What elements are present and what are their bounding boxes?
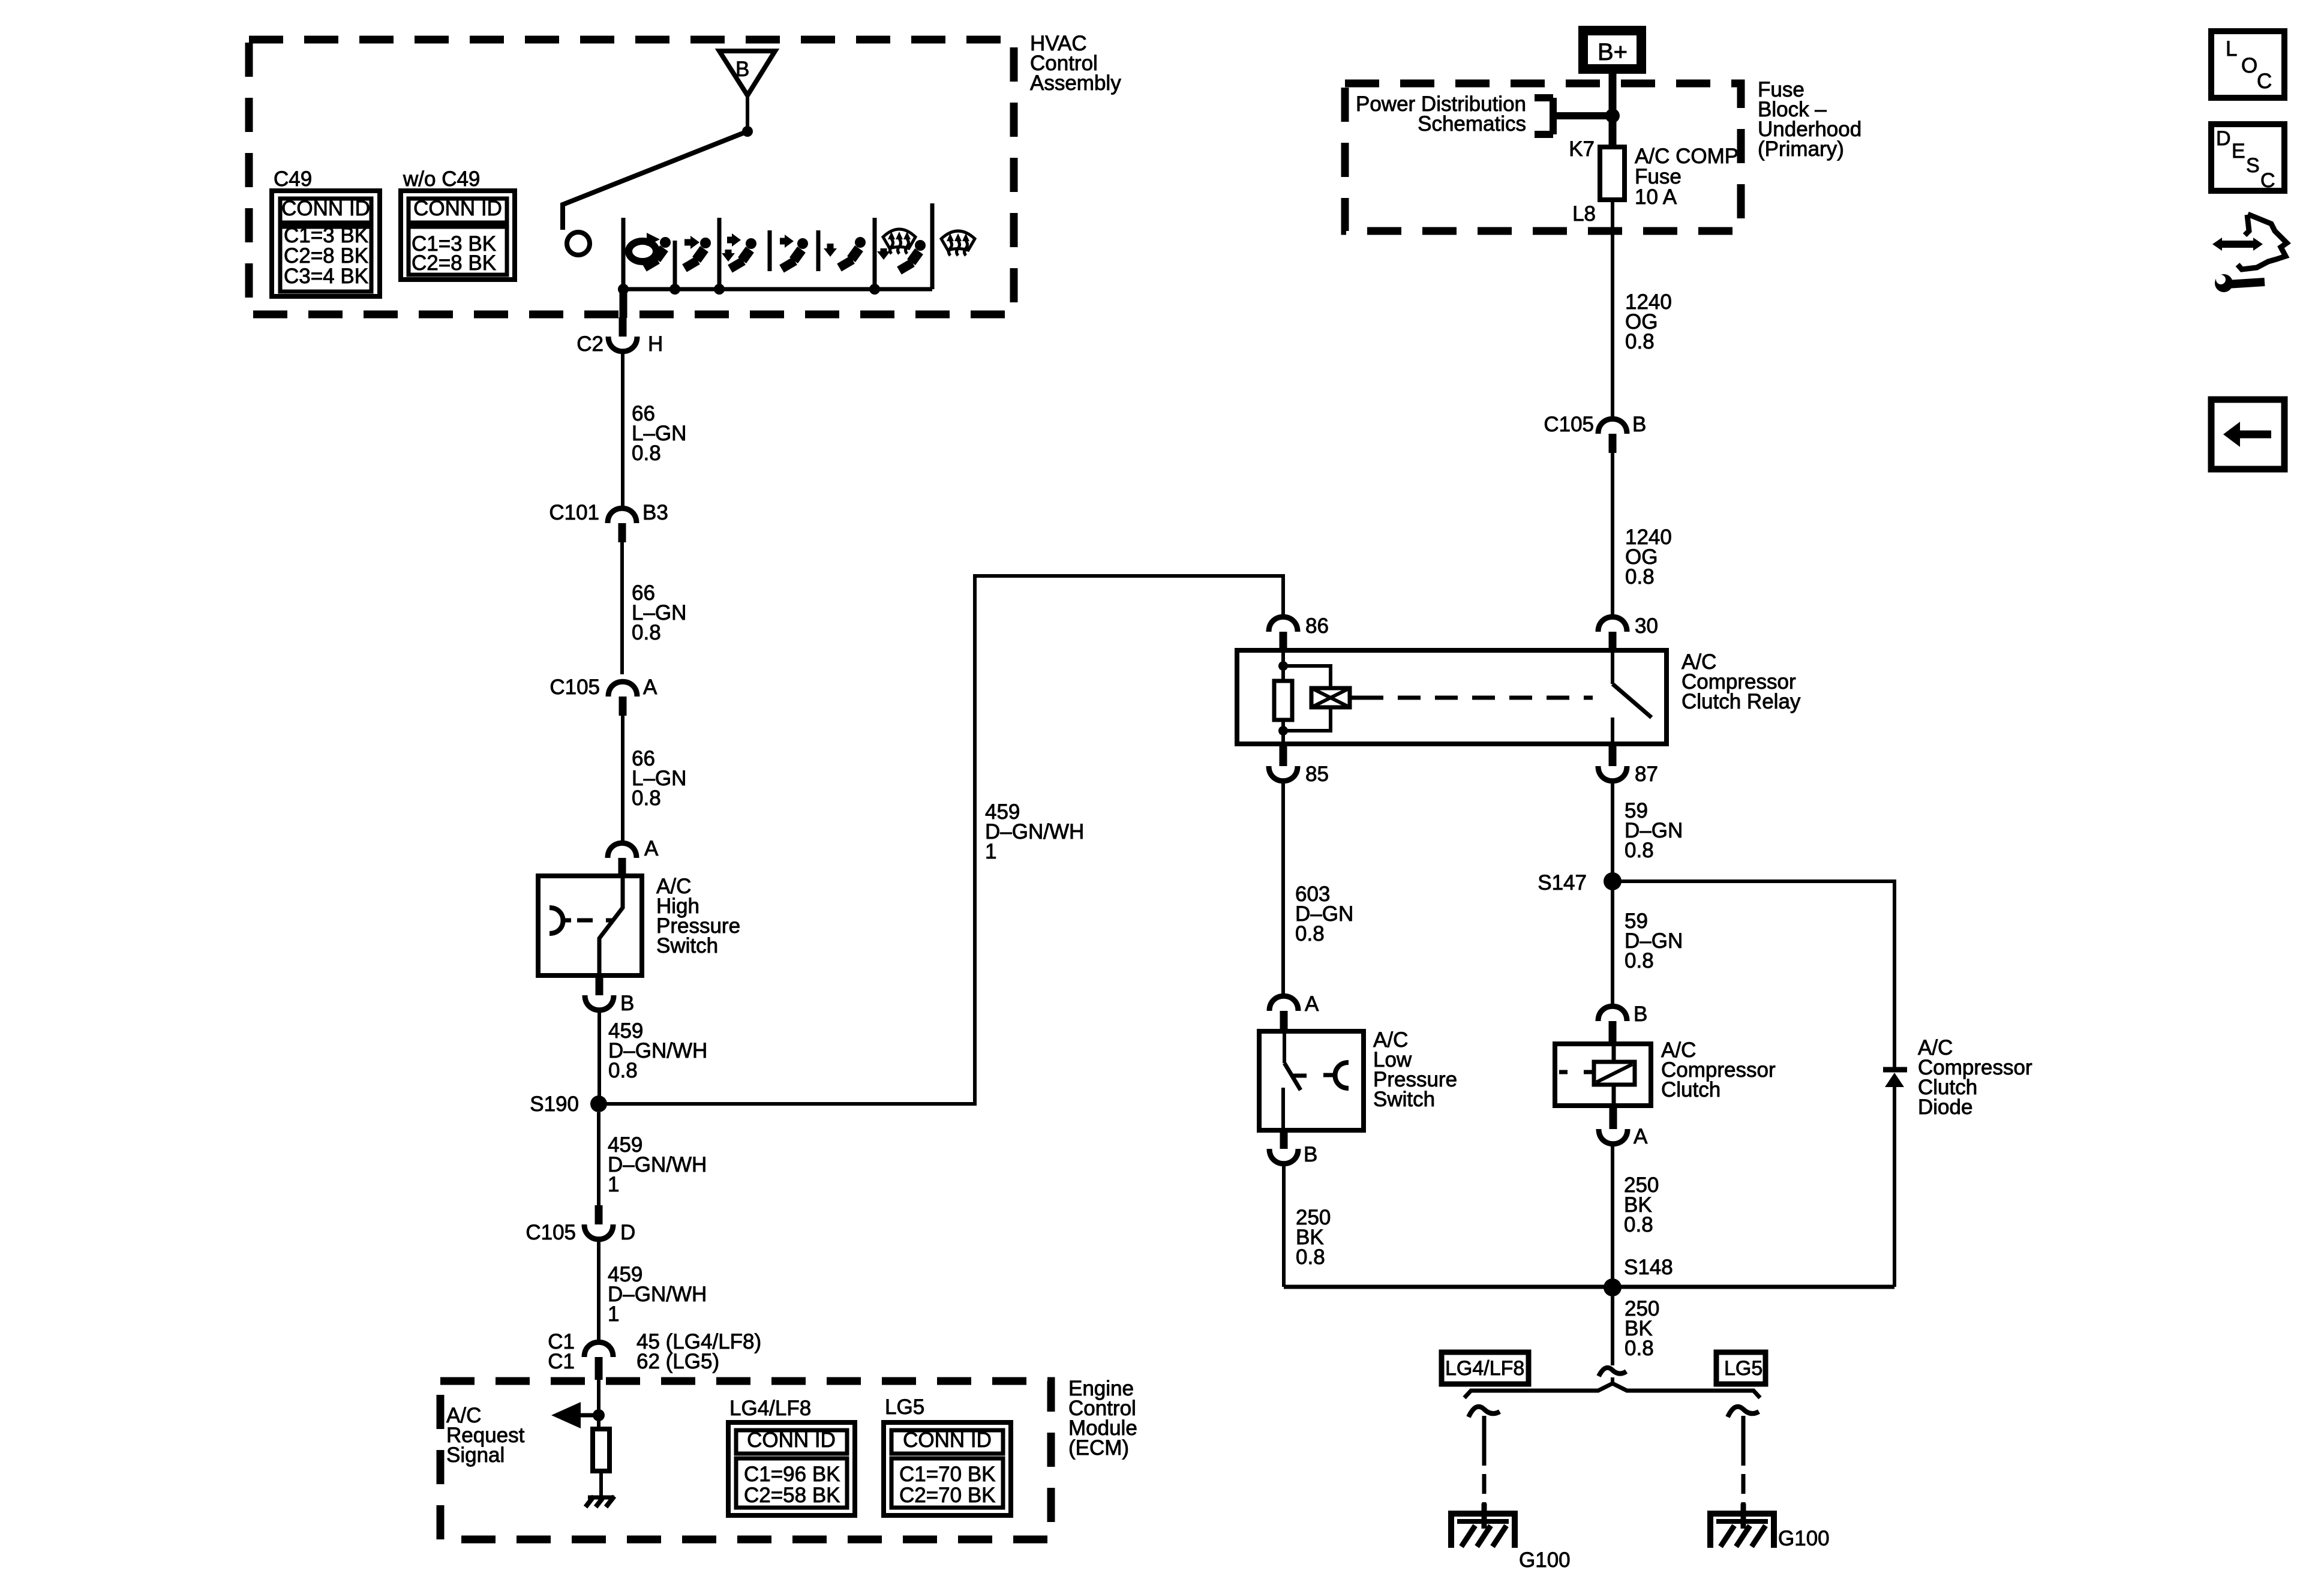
connector relay pin 86 (1269, 614, 1329, 650)
svg-text:C1: C1 (548, 1350, 575, 1373)
node wiper pivot (742, 126, 753, 137)
svg-text:0.8: 0.8 (608, 1059, 638, 1082)
mode icon bi-level (722, 233, 756, 269)
svg-text:LG5: LG5 (1724, 1357, 1762, 1380)
wire label 66 L-GN 0.8 (2) (632, 581, 686, 644)
relay actuator box (1311, 688, 1350, 707)
connector B of compressor clutch (1598, 1002, 1647, 1043)
connector B of high pressure switch (585, 977, 634, 1015)
svg-text:D–GN/WH: D–GN/WH (608, 1283, 707, 1306)
svg-text:0.8: 0.8 (632, 442, 661, 465)
ground G100 right (1710, 1503, 1774, 1548)
svg-text:Schematics: Schematics (1418, 112, 1526, 136)
svg-text:C2=70 BK: C2=70 BK (899, 1484, 996, 1507)
relay coil (1274, 681, 1292, 720)
A/C Compressor Clutch Diode label (1918, 1036, 2032, 1119)
svg-text:1: 1 (608, 1173, 619, 1196)
wire B to S190 (597, 1010, 601, 1097)
svg-text:0.8: 0.8 (1624, 1213, 1653, 1236)
svg-text:Switch: Switch (656, 934, 718, 957)
junction dot bus-4 (869, 284, 880, 295)
svg-text:O: O (2241, 54, 2257, 77)
wire clutch A to S148 (1611, 1143, 1614, 1287)
rotary switch contact circle (567, 232, 590, 255)
power distribution bracket (1535, 98, 1613, 134)
Fuse Block label (1758, 78, 1861, 161)
splice S147 (1538, 871, 1622, 894)
A/C High Pressure Switch label (656, 875, 740, 957)
relay mechanical dashed link (1350, 696, 1593, 700)
connector C105 pin D (526, 1205, 635, 1244)
svg-text:CONN ID: CONN ID (747, 1428, 836, 1452)
svg-text:C1=70 BK: C1=70 BK (899, 1463, 996, 1486)
wire 87 to S147 (1611, 781, 1614, 873)
splice crossover symbol (1599, 1368, 1626, 1376)
A/C Compressor Clutch Relay box (1237, 650, 1667, 744)
splice S148 (1604, 1256, 1673, 1296)
HVAC power node B triangle (719, 51, 775, 95)
HVAC Control Assembly box (dashed) (249, 40, 1014, 314)
relay coil out wire (1281, 720, 1285, 744)
LG5 branch wire (1742, 1416, 1746, 1509)
svg-text:C101: C101 (549, 501, 599, 524)
A/C Compressor Clutch label (1661, 1038, 1776, 1101)
svg-text:S190: S190 (530, 1092, 579, 1116)
node request junction (593, 1409, 605, 1421)
wire diode to rail (1893, 1087, 1896, 1287)
svg-text:C105: C105 (550, 676, 600, 699)
svg-text:D–GN/WH: D–GN/WH (985, 820, 1084, 843)
mode icon vent (684, 236, 711, 268)
mode icon vent 2 (780, 235, 808, 269)
svg-text:B3: B3 (642, 501, 668, 524)
svg-text:C2=58 BK: C2=58 BK (744, 1484, 840, 1507)
wire C2 to C101 (621, 351, 624, 509)
wire label 250 BK 0.8 (left) (1296, 1206, 1331, 1269)
wire C105A to switch A (621, 716, 624, 843)
svg-text:10 A: 10 A (1635, 185, 1677, 209)
svg-text:LG5: LG5 (885, 1395, 924, 1419)
svg-text:0.8: 0.8 (1625, 565, 1655, 589)
LG4 branch wire (1482, 1416, 1487, 1509)
relay switch contact (1611, 718, 1614, 744)
low pressure switch blade (1284, 1031, 1307, 1090)
svg-text:S148: S148 (1624, 1256, 1673, 1279)
back arrow icon box (2211, 400, 2284, 469)
wire S148 down (1611, 1296, 1614, 1365)
wire label 459 D-GN/WH 0.8 (608, 1019, 707, 1082)
svg-text:S: S (2246, 154, 2260, 177)
svg-text:B: B (735, 58, 749, 81)
svg-text:CONN ID: CONN ID (413, 197, 502, 220)
svg-text:0.8: 0.8 (1296, 1245, 1325, 1269)
relay actuator bracket (1283, 666, 1331, 731)
connector relay pin 85 (1269, 743, 1329, 786)
svg-text:62 (LG5): 62 (LG5) (636, 1350, 719, 1373)
wire label 250 BK 0.8 (mid) (1624, 1173, 1659, 1236)
svg-text:L8: L8 (1572, 202, 1596, 226)
connector C101 pin B3 (549, 501, 668, 542)
svg-text:L: L (2226, 37, 2237, 61)
w/o C49 connector table (401, 191, 515, 280)
LG4/LF8 CONN ID table (728, 1422, 855, 1515)
ground rail wire (1284, 1285, 1894, 1289)
wire label 66 L-GN 0.8 (1) (632, 402, 686, 465)
wire label 459 D-GN/WH 1 (1) (608, 1133, 707, 1196)
LG5 CONN ID table (884, 1422, 1011, 1515)
HVAC Control Assembly label (1030, 32, 1121, 95)
svg-text:H: H (648, 332, 663, 356)
wire triangle-to-wiper node (746, 95, 749, 131)
svg-text:G100: G100 (1519, 1548, 1571, 1572)
svg-text:C49: C49 (274, 167, 312, 191)
connector A of low pressure switch (1269, 992, 1319, 1029)
wire B+ to fuse (1609, 74, 1617, 147)
connector B of low pressure switch (1269, 1131, 1317, 1166)
svg-text:B: B (1304, 1143, 1317, 1166)
service icon arrow-wrench (2212, 214, 2287, 292)
svg-text:C105: C105 (526, 1221, 576, 1244)
C49 connector table (272, 191, 380, 296)
svg-text:D–GN/WH: D–GN/WH (608, 1153, 707, 1176)
wire 85 to LP switch (1281, 781, 1285, 996)
svg-text:Switch: Switch (1373, 1088, 1435, 1111)
svg-text:Clutch Relay: Clutch Relay (1682, 690, 1801, 713)
svg-text:86: 86 (1305, 614, 1329, 638)
svg-text:0.8: 0.8 (632, 621, 661, 644)
svg-text:B: B (1632, 413, 1646, 436)
svg-text:87: 87 (1635, 763, 1658, 786)
wire fuse to C105B (1611, 200, 1614, 419)
harness split brace (1464, 1377, 1760, 1398)
relay switch arm (1613, 650, 1652, 718)
wire C105B to relay 30 (1611, 453, 1614, 617)
A/C COMP Fuse label (1635, 145, 1739, 209)
svg-text:0.8: 0.8 (632, 786, 661, 810)
svg-text:C: C (2260, 169, 2275, 192)
DESC icon box (2211, 124, 2284, 192)
svg-text:1: 1 (608, 1302, 619, 1326)
mode separator bar 5 (816, 230, 821, 271)
fuse K7 A/C COMP (1569, 137, 1625, 226)
A/C Compressor Clutch box (1555, 1044, 1651, 1106)
connector C2 pin H (577, 317, 663, 356)
svg-text:A: A (643, 676, 657, 699)
node power distribution tap (1605, 109, 1620, 123)
wire label 59 D-GN 0.8 (2) (1625, 909, 1683, 972)
svg-text:B: B (620, 992, 634, 1015)
w/o C49 connector table title (403, 167, 480, 191)
svg-text:A: A (1305, 992, 1319, 1016)
Engine Control Module box (dashed) (440, 1381, 1051, 1539)
junction dot bus-3 (714, 284, 725, 295)
wire LP switch B to rail (1282, 1163, 1286, 1287)
Engine Control Module label (1068, 1377, 1137, 1460)
LG5 branch crossover (1728, 1407, 1759, 1417)
svg-text:0.8: 0.8 (1625, 330, 1655, 353)
ground G100 left (1451, 1503, 1515, 1548)
connector C1 into ECM (548, 1330, 761, 1380)
svg-text:G100: G100 (1778, 1527, 1830, 1550)
wire S190 to C105D (597, 1112, 600, 1205)
svg-text:LG4/LF8: LG4/LF8 (1445, 1357, 1524, 1380)
splice S190 (530, 1092, 607, 1116)
LG5 table title (885, 1395, 924, 1419)
relay node coil bottom (1278, 726, 1288, 736)
svg-text:A: A (644, 837, 659, 860)
wire label 459 D-GN/WH 1 (branch) (985, 800, 1084, 863)
wire C101 to C105A (620, 542, 624, 674)
mode separator bar 4 (768, 230, 772, 271)
svg-text:B+: B+ (1598, 39, 1628, 65)
mode contact bar 2 (673, 241, 677, 289)
svg-text:(Primary): (Primary) (1758, 137, 1844, 161)
G100 label left (1519, 1548, 1571, 1572)
LG4/LF8 tag box (1442, 1352, 1529, 1384)
svg-text:K7: K7 (1569, 137, 1595, 161)
svg-text:B: B (1634, 1002, 1647, 1026)
connector A of compressor clutch (1599, 1107, 1648, 1148)
wire S190 branch to relay 86 (599, 576, 1283, 1104)
mode contact bar 6 (873, 218, 877, 289)
low pressure switch contact arc (1323, 1062, 1349, 1088)
svg-text:CONN ID: CONN ID (903, 1428, 992, 1452)
svg-text:0.8: 0.8 (1625, 949, 1654, 972)
svg-text:0.8: 0.8 (1625, 839, 1654, 862)
svg-text:Diode: Diode (1918, 1095, 1972, 1119)
mode contact bar 7 (930, 203, 935, 289)
mode selector bus wire (623, 287, 932, 292)
svg-text:30: 30 (1635, 614, 1658, 638)
svg-text:0.8: 0.8 (1625, 1337, 1654, 1360)
wire C1 stub to request node (597, 1380, 600, 1429)
high pressure switch dashed link (577, 918, 613, 923)
wire C105D to C1 (597, 1239, 600, 1343)
low pressure switch lower contact (1281, 1088, 1285, 1130)
connector A of high pressure switch (608, 837, 659, 876)
wire label 250 BK 0.8 (lower) (1625, 1297, 1659, 1360)
svg-text:Assembly: Assembly (1030, 71, 1121, 95)
wire S147 to clutch B (1611, 890, 1614, 1007)
svg-text:D: D (2216, 127, 2231, 150)
mode icon floor (824, 237, 866, 268)
svg-text:1: 1 (985, 840, 996, 863)
svg-text:A: A (1634, 1125, 1648, 1148)
mode icon defrost (941, 231, 975, 256)
A/C Low Pressure Switch label (1373, 1028, 1457, 1111)
wire label 1240 OG 0.8 (1) (1625, 290, 1672, 353)
svg-text:S147: S147 (1538, 871, 1587, 894)
connector relay pin 30 (1598, 614, 1658, 650)
A/C Compressor Clutch Relay label (1682, 650, 1801, 713)
clutch coil (1559, 1044, 1635, 1106)
wire resistor to ground (599, 1471, 603, 1497)
svg-text:(ECM): (ECM) (1068, 1436, 1129, 1460)
svg-text:w/o C49: w/o C49 (403, 167, 480, 191)
A/C Request Signal label (446, 1404, 525, 1467)
svg-text:0.8: 0.8 (1295, 922, 1325, 945)
connector C105 pin A (550, 676, 657, 716)
LG4/LF8 table title (729, 1397, 811, 1420)
svg-text:Clutch: Clutch (1661, 1078, 1721, 1101)
LG5 tag box (1716, 1352, 1765, 1384)
relay node coil top (1278, 661, 1288, 671)
Power Distribution Schematics label (1356, 92, 1526, 136)
svg-text:C2=8 BK: C2=8 BK (412, 251, 496, 275)
wire HVAC bus to C2 stub (620, 289, 627, 318)
junction dot bus-1 (618, 284, 629, 295)
svg-text:D: D (620, 1221, 635, 1244)
svg-text:Signal: Signal (446, 1443, 505, 1467)
high pressure switch contact arc (550, 908, 571, 933)
LG4 branch crossover (1469, 1407, 1500, 1417)
ground ECM internal (585, 1496, 614, 1507)
svg-text:CONN ID: CONN ID (281, 197, 370, 220)
resistor ECM pull-up (593, 1429, 609, 1471)
connector relay pin 87 (1598, 743, 1658, 786)
svg-text:C: C (2257, 70, 2272, 93)
LOC icon box (2211, 31, 2284, 98)
wire label 459 D-GN/WH 1 (2) (608, 1263, 707, 1326)
A/C High Pressure Switch box (538, 876, 642, 975)
wire label 1240 OG 0.8 (2) (1625, 526, 1672, 589)
wire label 603 D-GN 0.8 (1295, 882, 1353, 945)
svg-text:E: E (2232, 140, 2245, 163)
svg-text:C2: C2 (577, 332, 603, 356)
junction dot bus-2 (669, 284, 680, 295)
svg-text:C1=96 BK: C1=96 BK (744, 1463, 840, 1486)
A/C Compressor Clutch Diode (1883, 1070, 1907, 1087)
wire label 59 D-GN 0.8 (1) (1625, 799, 1683, 862)
A/C request signal arrow (551, 1402, 599, 1428)
mode contact bar 3 (717, 218, 722, 289)
A/C Low Pressure Switch box (1259, 1031, 1364, 1130)
wire S147 to diode (1613, 881, 1894, 1067)
battery feed B+ box (1583, 31, 1641, 69)
relay coil feed wire (1281, 650, 1285, 681)
svg-text:C3=4 BK: C3=4 BK (284, 265, 368, 288)
G100 label right (1778, 1527, 1830, 1550)
rotary switch wiper arm (563, 131, 747, 230)
C49 connector table title (274, 167, 312, 191)
wire label 66 L-GN 0.8 (3) (632, 747, 686, 810)
Fuse Block Underhood box (dashed) (1345, 83, 1741, 231)
connector C105 pin B (1544, 413, 1646, 453)
mode icon defrost-floor (877, 229, 926, 271)
svg-text:85: 85 (1305, 763, 1329, 786)
high pressure switch blade (599, 876, 623, 975)
svg-text:C105: C105 (1544, 413, 1594, 436)
mode icon recirculation (629, 233, 671, 268)
svg-text:LG4/LF8: LG4/LF8 (729, 1397, 811, 1420)
mode contact bar 1 (621, 218, 626, 289)
